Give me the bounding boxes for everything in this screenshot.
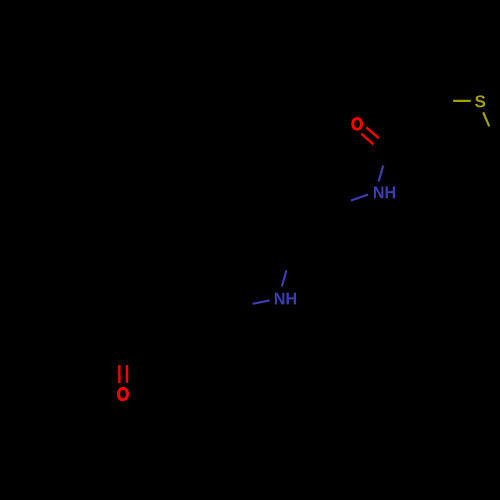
atom S — [475, 95, 485, 107]
ketone C=O double bond — [119, 365, 127, 383]
bond N-CH2 amine up — [282, 270, 287, 286]
bond N-CH2 amide — [351, 195, 368, 201]
bond N-C aryl amine left — [253, 300, 270, 303]
atom O amide — [352, 118, 363, 131]
bond C-S horizontal — [453, 100, 471, 102]
atom NH amine — [275, 293, 296, 305]
amide C=O double bond — [361, 127, 379, 144]
bond N-C(=O) — [379, 166, 384, 182]
bond S-C diagonal — [483, 112, 489, 126]
atom O ketone — [117, 387, 128, 400]
atom NH amide — [374, 187, 395, 199]
